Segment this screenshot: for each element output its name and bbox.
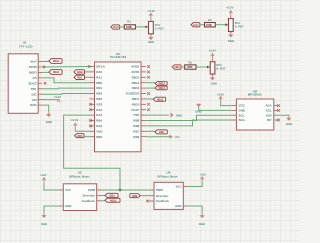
- ground: [228, 33, 234, 43]
- wire: [84, 136, 90, 138]
- svg-text:U2: U2: [78, 171, 82, 175]
- wire: [44, 206, 58, 213]
- no-connect: [89, 108, 92, 111]
- power +12V: [40, 173, 47, 183]
- wire arrow: [43, 65, 91, 68]
- svg-text:RB5: RB5: [77, 134, 83, 138]
- svg-text:100k: 100k: [206, 23, 213, 27]
- potentiometer RV2: [225, 17, 244, 34]
- no-connect: [147, 103, 150, 106]
- svg-text:RB9: RB9: [133, 119, 139, 123]
- svg-text:VUSB3V3: VUSB3V3: [126, 92, 140, 96]
- svg-text:VIN: VIN: [32, 98, 37, 102]
- svg-text:RA2: RA2: [96, 108, 102, 112]
- label RB13: [49, 70, 62, 75]
- svg-text:RB13: RB13: [132, 86, 140, 90]
- IC U1 TFT-LCD body: [8, 54, 42, 114]
- no-connect: [147, 92, 150, 95]
- wire: [146, 87, 155, 89]
- svg-text:+3.3V: +3.3V: [226, 5, 234, 9]
- svg-text:RB13: RB13: [53, 70, 60, 74]
- label RB9: [130, 194, 140, 198]
- no-connect: [89, 125, 92, 128]
- no-connect: [146, 200, 149, 203]
- svg-text:GND: GND: [41, 222, 47, 226]
- svg-text:+5V: +5V: [175, 135, 180, 139]
- no-connect: [147, 76, 150, 79]
- svg-text:XCL: XCL: [266, 109, 272, 113]
- wire: [215, 24, 227, 26]
- no-connect: [147, 108, 150, 111]
- svg-text:RB11: RB11: [132, 97, 140, 101]
- svg-text:+12V: +12V: [40, 173, 47, 177]
- resistor R2: [205, 19, 216, 27]
- wire: [42, 93, 90, 96]
- svg-text:AVDD: AVDD: [131, 65, 140, 69]
- svg-text:GND: GND: [77, 70, 83, 74]
- svg-text:GND: GND: [199, 222, 205, 226]
- IC U2 name: [69, 171, 89, 179]
- power +3.3V: [148, 9, 156, 21]
- wire: [146, 136, 170, 138]
- svg-text:GND: GND: [211, 82, 217, 86]
- no-connect: [277, 104, 280, 107]
- wire: [146, 82, 155, 84]
- svg-text:+3.3V: +3.3V: [209, 49, 217, 53]
- svg-text:+3.3V: +3.3V: [71, 118, 79, 122]
- svg-text:SCL: SCL: [239, 113, 245, 117]
- wire: [120, 26, 125, 28]
- wire: [278, 115, 289, 117]
- svg-text:RB2: RB2: [96, 92, 102, 96]
- wire: [42, 66, 90, 68]
- svg-text:R3: R3: [188, 61, 192, 64]
- IC U2 motor driver body: [58, 184, 101, 211]
- svg-text:TFT-LCD: TFT-LCD: [19, 44, 34, 48]
- svg-text:VDD: VDD: [96, 129, 103, 133]
- svg-text:GND: GND: [239, 109, 247, 113]
- IC U1 TFT-LCD name: [19, 41, 34, 49]
- svg-text:U4: U4: [167, 170, 171, 174]
- svg-text:BLK: BLK: [31, 60, 38, 64]
- wire: [199, 106, 232, 110]
- ground: [210, 76, 217, 86]
- no-connect: [147, 65, 150, 68]
- svg-text:+3.3V: +3.3V: [54, 95, 62, 99]
- svg-text:A_POT: A_POT: [155, 28, 164, 31]
- power +3.3V: [71, 118, 79, 131]
- wire: [102, 200, 105, 202]
- resistor R1 label RA0: [111, 25, 120, 29]
- svg-text:RB0: RB0: [96, 81, 102, 85]
- label RB14: [49, 59, 62, 64]
- no-connect: [89, 103, 92, 106]
- svg-text:VCC: VCC: [239, 104, 246, 108]
- label RB14: [155, 82, 167, 86]
- svg-text:GND: GND: [30, 103, 38, 107]
- svg-text:PIC24FJ64: PIC24FJ64: [110, 55, 126, 59]
- IC U3 name: [110, 52, 126, 59]
- svg-text:MISO: MISO: [29, 71, 37, 75]
- svg-text:RB1: RB1: [96, 86, 102, 90]
- svg-text:RB1: RB1: [175, 65, 181, 69]
- svg-text:GND: GND: [175, 204, 181, 208]
- label RB11: [153, 97, 165, 101]
- svg-text:GND: GND: [228, 39, 234, 43]
- power +12V: [200, 172, 207, 181]
- resistor R1: [124, 21, 135, 29]
- svg-text:MCLR: MCLR: [96, 65, 105, 69]
- wire: [221, 101, 232, 106]
- svg-text:RA3: RA3: [96, 113, 102, 117]
- svg-text:Feedback: Feedback: [82, 199, 96, 203]
- no-connect: [89, 119, 92, 122]
- svg-text:AVSS: AVSS: [131, 70, 139, 74]
- svg-text:+3.3V: +3.3V: [148, 9, 156, 13]
- svg-text:DFRobot_Motor: DFRobot_Motor: [69, 176, 89, 179]
- no-connect: [277, 109, 280, 112]
- label GND: [74, 70, 85, 74]
- svg-text:VSS: VSS: [96, 102, 102, 106]
- wire: [42, 87, 90, 90]
- svg-text:GND: GND: [195, 109, 201, 113]
- svg-text:D/C: D/C: [32, 92, 38, 96]
- svg-text:GND: GND: [286, 122, 292, 126]
- wire: [42, 78, 90, 83]
- wire: [75, 130, 89, 132]
- svg-text:100k: 100k: [186, 65, 193, 69]
- svg-text:VCC: VCC: [175, 185, 182, 189]
- svg-text:AD0: AD0: [266, 113, 272, 117]
- wire: [102, 189, 149, 191]
- label RB13: [155, 86, 167, 90]
- power +3.3V: [209, 49, 217, 62]
- svg-text:RA0: RA0: [113, 25, 119, 29]
- svg-text:VCAP: VCAP: [131, 108, 139, 112]
- wire: [102, 195, 105, 197]
- svg-text:RB3: RB3: [96, 97, 102, 101]
- label RB4: [105, 193, 118, 197]
- IC U4 name: [157, 170, 177, 178]
- wire: [146, 114, 169, 116]
- resistor R2 label RA1: [191, 23, 200, 27]
- svg-text:A_POT: A_POT: [235, 25, 244, 28]
- resistor R3 label RB1: [172, 65, 181, 69]
- svg-text:DFRobot_Motor: DFRobot_Motor: [157, 176, 177, 179]
- svg-text:RB14: RB14: [158, 82, 165, 86]
- svg-text:VCC: VCC: [65, 188, 72, 192]
- ground: [148, 36, 154, 45]
- power +3.3V: [226, 5, 234, 18]
- IC U3 body: [90, 62, 147, 152]
- svg-text:GND: GND: [176, 113, 182, 117]
- svg-text:MPU6050: MPU6050: [248, 93, 262, 97]
- svg-text:RB6: RB6: [133, 135, 139, 139]
- wire: [146, 115, 231, 120]
- wire: [42, 71, 49, 73]
- potentiometer RV1: [145, 20, 164, 36]
- svg-text:Direction: Direction: [156, 194, 169, 198]
- wire: [44, 183, 58, 190]
- svg-text:RA1: RA1: [193, 23, 199, 27]
- ground: [195, 103, 201, 113]
- svg-text:RB13: RB13: [158, 86, 165, 90]
- svg-text:R1: R1: [127, 21, 131, 24]
- svg-text:INT: INT: [267, 118, 272, 122]
- ground: [46, 112, 52, 124]
- svg-text:100k: 100k: [126, 25, 133, 29]
- svg-text:RST: RST: [31, 87, 37, 91]
- svg-text:RB1: RB1: [77, 76, 83, 80]
- wire: [146, 120, 231, 126]
- svg-text:RB10: RB10: [132, 102, 140, 106]
- svg-text:GND: GND: [46, 120, 52, 124]
- svg-text:GND: GND: [65, 204, 71, 208]
- svg-text:RA1: RA1: [96, 75, 102, 79]
- IC U8 MPU6050 body: [231, 99, 277, 130]
- wire: [42, 105, 49, 111]
- svg-text:Feedback: Feedback: [156, 199, 170, 203]
- svg-text:RB5: RB5: [96, 135, 102, 139]
- wire: [64, 115, 120, 190]
- svg-text:XDA: XDA: [265, 104, 272, 108]
- no-connect: [277, 119, 280, 122]
- label RB7: [155, 130, 167, 134]
- svg-text:VSS: VSS: [133, 113, 139, 117]
- wire: [196, 66, 209, 68]
- svg-text:RB11: RB11: [157, 97, 164, 101]
- svg-text:RB15: RB15: [132, 75, 140, 79]
- wire: [181, 66, 185, 68]
- ground: [199, 213, 205, 226]
- svg-text:RB7: RB7: [159, 130, 165, 134]
- svg-text:+3.3V: +3.3V: [217, 93, 225, 97]
- svg-text:RA0: RA0: [96, 70, 102, 74]
- wire: [146, 130, 155, 132]
- svg-text:PWM: PWM: [156, 188, 164, 192]
- svg-text:RB4: RB4: [109, 194, 115, 198]
- wire: [85, 71, 90, 73]
- svg-text:PWM: PWM: [88, 188, 96, 192]
- no-connect: [44, 82, 47, 85]
- svg-text:RA4: RA4: [96, 124, 102, 128]
- svg-text:CS: CS: [33, 76, 37, 80]
- ground: [286, 117, 292, 126]
- wire: [188, 206, 202, 213]
- power +5V: [170, 135, 180, 139]
- svg-text:SDCS: SDCS: [28, 81, 36, 85]
- svg-text:RB8: RB8: [133, 124, 139, 128]
- wire: [140, 195, 149, 197]
- wire: [42, 99, 59, 101]
- svg-text:SDA: SDA: [239, 118, 246, 122]
- svg-text:R2: R2: [208, 19, 212, 22]
- label RB5: [75, 134, 85, 138]
- svg-text:RB15: RB15: [110, 198, 117, 202]
- svg-text:GND: GND: [148, 40, 154, 44]
- wire: [136, 26, 148, 28]
- no-connect: [147, 71, 150, 74]
- svg-text:MOSI: MOSI: [29, 65, 37, 69]
- svg-text:B_POT: B_POT: [216, 68, 225, 71]
- IC U8 name: [248, 89, 262, 96]
- IC U4 motor driver body: [149, 182, 188, 209]
- svg-text:RB14: RB14: [132, 81, 140, 85]
- svg-text:RB14: RB14: [53, 59, 60, 63]
- power +3.3V: [54, 95, 62, 102]
- svg-text:RB7: RB7: [133, 129, 139, 133]
- wire: [146, 98, 153, 100]
- svg-text:RB4: RB4: [96, 119, 102, 123]
- ground: [171, 113, 182, 118]
- power +3.3V: [217, 93, 225, 102]
- label RB15: [105, 198, 120, 202]
- label RB1: [74, 75, 85, 79]
- svg-text:Direction: Direction: [82, 194, 95, 198]
- wire: [85, 76, 90, 78]
- wire: [42, 61, 49, 63]
- wire: [200, 24, 205, 26]
- ground: [41, 213, 47, 226]
- wire: [188, 181, 202, 186]
- resistor R3: [185, 61, 196, 69]
- svg-text:+12V: +12V: [200, 172, 207, 176]
- svg-text:RB9: RB9: [132, 194, 138, 198]
- junction: [119, 189, 122, 192]
- potentiometer RV3: [207, 60, 226, 76]
